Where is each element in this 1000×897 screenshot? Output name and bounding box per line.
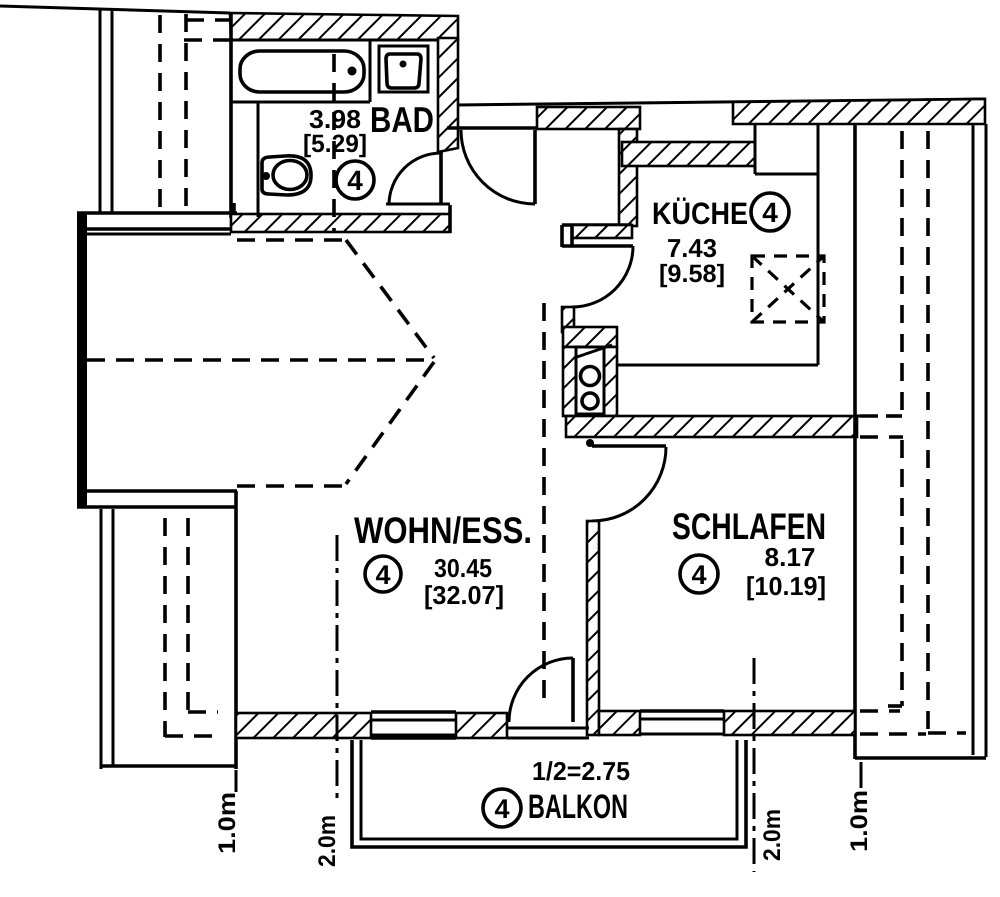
living bottom wall hatched left	[236, 713, 371, 738]
balcony door threshold	[507, 727, 589, 730]
svg-text:BALKON: BALKON	[528, 788, 628, 826]
svg-text:[10.19]: [10.19]	[746, 571, 826, 601]
bay top wall lower edge	[87, 233, 231, 236]
axis dash-dot right outer	[860, 762, 863, 788]
kitchen top wall hatched band	[622, 142, 755, 166]
left facade upper double line	[99, 8, 102, 213]
kitchen door leaf	[562, 244, 633, 248]
bathroom door arc	[389, 153, 441, 205]
svg-text:1/2=2.75: 1/2=2.75	[532, 756, 630, 786]
bottom right closing line	[855, 756, 986, 760]
svg-text:8.17: 8.17	[765, 542, 816, 572]
sink box	[379, 46, 428, 92]
bedroom bottom wall hatched right	[724, 711, 855, 735]
shaft circle 1	[581, 367, 600, 386]
dashed corner lower-left A	[165, 734, 218, 738]
bay top wall inner line	[77, 227, 237, 231]
dashed roof line upper-left A	[158, 15, 162, 209]
attic dashed centre line	[87, 358, 434, 362]
dashed roof line right B	[926, 131, 930, 733]
bay window left wall solid	[77, 212, 87, 508]
dashed roof line right A lower	[900, 440, 904, 706]
kitchen step wall hatched	[572, 225, 632, 238]
kitchen niche step	[754, 124, 757, 174]
bath circle 4	[336, 161, 374, 199]
svg-text:4: 4	[494, 794, 509, 824]
bedroom door leaf	[592, 444, 666, 448]
entry door arc	[461, 130, 535, 204]
svg-text:2.0m: 2.0m	[314, 815, 341, 867]
dashed roof line lower-left A	[163, 518, 167, 737]
bathroom right wall hatched band	[438, 38, 458, 152]
svg-text:7.43: 7.43	[667, 233, 717, 263]
bathroom door leaf	[439, 152, 443, 205]
svg-text:SCHLAFEN: SCHLAFEN	[672, 506, 826, 547]
kitchen circle 4	[751, 193, 789, 231]
bedroom door hinge dot	[586, 439, 594, 447]
dashed X box shaft	[752, 256, 824, 322]
kitchen interior boundary line	[617, 364, 818, 367]
kitchen bottom wall top line extension	[857, 415, 874, 418]
main top wall hatched band	[733, 99, 985, 124]
bay top wall outer line	[77, 211, 237, 215]
balcony outer outline	[352, 740, 746, 847]
bathtub faucet dot	[348, 67, 357, 76]
kitchen east interior wall	[817, 125, 820, 365]
dashed corner right A lower	[888, 704, 902, 708]
kitchen door arc	[572, 246, 633, 307]
dashed roof line right A	[900, 131, 904, 414]
balcony circle 4	[483, 789, 521, 827]
svg-text:[32.07]: [32.07]	[424, 580, 504, 610]
balcony door arc	[509, 658, 573, 722]
svg-text:BAD: BAD	[370, 99, 434, 140]
living/bedroom divider wall hatched	[587, 521, 599, 735]
balcony inner outline	[361, 740, 737, 839]
svg-text:4: 4	[762, 197, 778, 228]
shaft hatched right strip	[604, 347, 617, 416]
balcony axis dash-dot right	[753, 658, 756, 872]
dashed corner right A	[886, 414, 902, 418]
bathroom top wall hatched band	[230, 13, 458, 40]
attic dashed upper horizontal	[237, 238, 346, 242]
east wall line	[853, 124, 857, 759]
bathroom door jamb	[448, 205, 452, 233]
dashed roof line upper-left B	[184, 14, 188, 209]
svg-text:KÜCHE: KÜCHE	[652, 196, 748, 231]
living bottom wall hatched right	[456, 713, 507, 738]
corridor dashed line	[542, 303, 546, 706]
living circle 4	[365, 556, 401, 592]
dashed wall extension lines right	[860, 414, 886, 418]
shaft inner box	[576, 347, 604, 414]
bathroom door threshold lines	[386, 203, 450, 206]
attic dashed upper diagonal	[346, 240, 434, 358]
shaft hatched top strip	[563, 327, 617, 347]
main top outline line	[457, 99, 985, 105]
entry door threshold line	[447, 126, 538, 130]
bathroom bottom wall hatched band	[231, 214, 450, 232]
bottom-left closing line	[101, 764, 237, 768]
kitchen step wall top line	[562, 223, 632, 227]
svg-text:[9.58]: [9.58]	[659, 260, 725, 288]
bedroom circle 4	[680, 555, 718, 593]
left facade lower double line	[100, 509, 103, 769]
right facade double line	[972, 124, 975, 755]
bathtub box	[231, 39, 437, 42]
attic dashed lower horizontal	[237, 484, 346, 488]
bedroom window	[640, 709, 724, 713]
dashed connector row 1	[186, 18, 230, 22]
bedroom door arc	[592, 447, 666, 521]
bay bottom wall inner line	[77, 489, 237, 493]
shaft hatched left strip	[563, 347, 576, 416]
svg-text:4: 4	[691, 560, 706, 590]
partition line left of toilet	[257, 102, 260, 217]
svg-text:30.45: 30.45	[434, 553, 492, 583]
svg-text:4: 4	[347, 165, 363, 196]
entry door leaf	[533, 130, 537, 204]
sink dot	[400, 61, 407, 68]
svg-text:4: 4	[375, 560, 390, 590]
wall stub above bay	[232, 203, 236, 231]
entry top wall hatched band	[537, 107, 640, 129]
svg-text:1.0m: 1.0m	[846, 790, 873, 852]
shaft circle 2	[582, 393, 598, 409]
sink basin	[386, 54, 421, 88]
axis dash-dot left outer	[235, 770, 238, 792]
dashed connector row 2	[184, 38, 230, 42]
bay bottom wall outer line	[77, 505, 237, 509]
dashed corner lower-left B	[188, 710, 218, 714]
living window	[371, 710, 456, 714]
attic dashed lower diagonal	[346, 362, 434, 484]
living room west wall	[234, 491, 238, 769]
balcony door leaf	[571, 658, 575, 722]
top boundary slanted line left	[0, 6, 230, 13]
bedroom bottom wall hatched left	[599, 711, 640, 735]
shaft diagonal	[574, 345, 612, 358]
balcony axis dash-dot left	[336, 535, 339, 805]
svg-text:2.0m: 2.0m	[759, 809, 786, 861]
kitchen step wall cap	[560, 225, 564, 247]
toilet	[262, 156, 311, 195]
svg-text:1.0m: 1.0m	[214, 792, 241, 854]
dashed corner right B	[928, 731, 966, 735]
kitchen west wall piece below door	[562, 307, 574, 332]
svg-text:[5.29]: [5.29]	[303, 130, 367, 158]
kitchen west wall upper hatched	[619, 129, 637, 226]
dashed roof line lower-left B	[186, 518, 190, 713]
svg-text:WOHN/ESS.: WOHN/ESS.	[354, 510, 532, 551]
bathroom left wall	[229, 13, 233, 218]
kitchen bottom wall hatched band	[566, 416, 857, 437]
bathtub	[240, 51, 364, 92]
dashed axis line through bath	[332, 54, 336, 232]
